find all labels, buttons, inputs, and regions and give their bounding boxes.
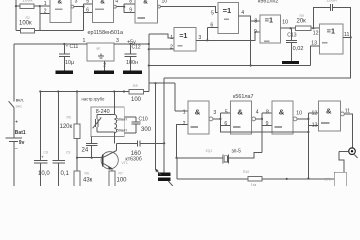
svg-text:R5: R5 — [67, 116, 71, 120]
ground under C11 — [56, 71, 74, 75]
coil unit box L1 — [91, 107, 124, 137]
svg-text:5: 5 — [225, 109, 228, 115]
xor gate DD2.2 =1 (pins 1,2 out 3) — [170, 28, 201, 52]
capacitor C13 0,02 — [286, 28, 303, 61]
svg-text:=1: =1 — [179, 31, 187, 40]
svg-text:&: & — [143, 0, 148, 5]
+5 rail y91.5 — [39, 90, 149, 92]
wire +5v output y44 — [114, 43, 150, 45]
xor gate DD2.3 =1 (pins 8,9 out 10) — [254, 15, 288, 43]
svg-text:вкл.: вкл. — [16, 98, 24, 103]
wire battery column bottom — [13, 141, 15, 186]
svg-text:120к: 120к — [60, 124, 73, 130]
svg-text:&: & — [237, 108, 243, 117]
wire bottom left to R10 — [177, 178, 248, 180]
wire N4 out 11 to jack — [344, 114, 352, 148]
capacitor C10 300 — [124, 117, 151, 134]
wire xorD pin13 to bus — [310, 46, 319, 66]
wire gate3 out 10 to xorA pin5 — [160, 7, 218, 13]
svg-text:11: 11 — [344, 32, 349, 38]
wire +5v vertical distribution — [148, 34, 150, 92]
svg-text:1: 1 — [83, 38, 86, 44]
wire frame drop to resonator — [163, 78, 165, 173]
svg-text:100к: 100к — [22, 0, 33, 4]
svg-text:зп-5: зп-5 — [232, 149, 242, 155]
svg-text:R10: R10 — [243, 170, 249, 174]
resistor R7 100 — [109, 171, 127, 187]
capacitor C5 160 — [117, 140, 166, 156]
svg-text:10: 10 — [296, 110, 302, 116]
wire xorA pin6 from node3 — [206, 28, 218, 42]
wire collector up — [116, 143, 118, 150]
svg-text:2: 2 — [183, 121, 186, 127]
wire base node — [76, 157, 102, 159]
svg-text:9: 9 — [254, 29, 257, 35]
svg-text:10: 10 — [282, 20, 288, 26]
svg-text:BF1: BF1 — [325, 178, 331, 182]
inductor L1 windings 50vit — [114, 115, 127, 133]
svg-text:−: − — [15, 146, 18, 152]
wire gate1 out to gate2 in — [74, 4, 93, 31]
svg-text:2: 2 — [170, 45, 173, 51]
svg-text:Bat1: Bat1 — [15, 130, 26, 136]
capacitor C7 24 — [82, 137, 98, 158]
resonator ZQ1 plates (thick bars) — [155, 169, 173, 187]
svg-text:&: & — [58, 0, 63, 5]
svg-text:4: 4 — [241, 10, 244, 16]
wire rail y132 — [220, 131, 308, 133]
svg-text:4: 4 — [256, 109, 259, 115]
svg-text:8: 8 — [254, 19, 257, 25]
svg-text:10: 10 — [162, 0, 168, 5]
resistor R2 100k — [16, 16, 84, 33]
svg-text:1: 1 — [44, 1, 47, 7]
svg-text:8: 8 — [266, 109, 269, 115]
switch SA1 вкл — [9, 98, 25, 109]
nand gate DD3.3 (pins 8,9 out 10) — [266, 101, 303, 134]
svg-text:&: & — [195, 108, 201, 117]
svg-text:+: + — [41, 155, 44, 160]
capacitor C8 10,0 — [34, 92, 50, 187]
wire to xorB pin1 — [149, 34, 174, 38]
svg-text:к561ла7: к561ла7 — [233, 94, 254, 100]
regulator U1 box — [83, 38, 120, 68]
bus wire y65.5 — [148, 64, 311, 66]
svg-text:8: 8 — [129, 0, 132, 5]
svg-text:C13: C13 — [287, 33, 296, 39]
svg-text:3: 3 — [213, 110, 216, 116]
svg-text:9: 9 — [129, 8, 132, 14]
wire xorD out11 — [343, 36, 352, 38]
svg-text:0,1: 0,1 — [61, 171, 70, 177]
svg-text:настр.грубо: настр.грубо — [82, 96, 105, 101]
wire rail to coil box — [113, 92, 115, 115]
svg-text:к561лп2: к561лп2 — [258, 0, 278, 5]
wire battery column top — [13, 44, 15, 102]
svg-text:C11: C11 — [70, 44, 79, 50]
nand gate DD3.1 (pins 1,2 out 3) — [183, 101, 217, 134]
node A junctions — [15, 5, 41, 7]
svg-text:=1: =1 — [223, 6, 232, 15]
svg-text:=1: =1 — [265, 16, 273, 25]
wire gate1 input column — [34, 6, 50, 31]
svg-text:100н: 100н — [126, 60, 138, 66]
svg-text:вп: вп — [97, 47, 101, 51]
svg-text:=1: =1 — [327, 26, 335, 35]
ground under C12 — [123, 71, 142, 75]
svg-text:20к: 20к — [297, 19, 307, 25]
svg-text:C9: C9 — [66, 151, 70, 155]
transistor VT1 кт630б — [101, 151, 142, 170]
wire +5 branch y83 — [149, 82, 175, 84]
wire N2 out to N3 inputs and crystal — [229, 113, 272, 158]
svg-text:6: 6 — [224, 121, 227, 127]
svg-text:2: 2 — [44, 9, 47, 15]
svg-text:R2: R2 — [26, 16, 30, 20]
frame wire y78 — [164, 37, 351, 78]
wire xorA out4 to xorC pin8 and bus — [239, 16, 261, 67]
wire +5 branch down to arrow — [155, 83, 157, 169]
trimmer capacitor C6 8-240 — [93, 115, 115, 132]
svg-text:12: 12 — [312, 110, 318, 116]
svg-text:ZQ1: ZQ1 — [206, 149, 213, 153]
wire xorC out10 to R 20k — [280, 27, 295, 29]
svg-text:12: 12 — [313, 30, 319, 36]
svg-text:160: 160 — [131, 151, 142, 157]
svg-text:300: 300 — [141, 127, 152, 133]
resistor R1 100k (top, cut) — [16, 0, 40, 8]
svg-text:10μ: 10μ — [65, 60, 74, 66]
svg-text:100н: 100н — [327, 0, 338, 3]
wire N1 pin2 from crystal node — [175, 125, 188, 159]
svg-text:100к: 100к — [19, 21, 32, 27]
svg-text:10,0: 10,0 — [38, 171, 50, 177]
wire R10 to earphone — [262, 177, 334, 180]
wire N1 out to N2 inputs — [213, 113, 231, 132]
wire to xorB pin2 — [149, 48, 174, 50]
nand gate DD3.4 (pins 12,13 out 11) — [312, 101, 351, 131]
svg-text:9v: 9v — [19, 140, 25, 146]
svg-text:24: 24 — [82, 148, 89, 154]
svg-text:+: + — [66, 44, 69, 49]
battery Bat1 9v — [6, 120, 26, 153]
ground regulator pin2 — [94, 61, 114, 74]
svg-text:100: 100 — [117, 178, 128, 184]
wire emitter down — [111, 169, 113, 171]
svg-text:0,02: 0,02 — [293, 46, 304, 52]
svg-text:C10: C10 — [139, 117, 148, 123]
earphone BF1 box (cut) — [325, 172, 347, 187]
svg-text:1: 1 — [183, 109, 186, 115]
wire N1 pin1 from +5 branch — [175, 83, 188, 111]
resistor R6 43k — [74, 158, 93, 187]
svg-text:13: 13 — [312, 122, 318, 128]
svg-text:&: & — [100, 0, 105, 5]
capacitor C12 100n — [125, 44, 141, 71]
svg-text:43к: 43к — [83, 178, 93, 184]
svg-text:3: 3 — [116, 38, 119, 44]
resistor R8 100 — [129, 84, 143, 103]
gate DD1.1 NAND (top cut) — [44, 0, 78, 23]
wire bottom node down from crystal junction — [176, 158, 178, 179]
svg-text:&: & — [279, 108, 285, 117]
svg-text:9: 9 — [266, 121, 269, 127]
wire coil box bottom to collector line — [113, 132, 115, 144]
svg-text:R9: R9 — [300, 14, 304, 18]
svg-text:5: 5 — [86, 0, 89, 5]
resistor R10 — [243, 170, 262, 188]
resistor R5 120k — [60, 92, 81, 158]
svg-text:ер1158ен501а: ер1158ен501а — [88, 30, 124, 36]
svg-text:SA1: SA1 — [16, 105, 23, 109]
svg-text:100: 100 — [131, 97, 142, 103]
crystal node junction and crystal wire — [177, 157, 223, 159]
wire battery column mid — [13, 108, 15, 139]
svg-text:6: 6 — [86, 8, 89, 14]
svg-text:кт630б: кт630б — [125, 157, 141, 163]
wire left feedback column — [15, 0, 17, 31]
xor gate DD2.4 =1 (pins 12,13 out 11) — [311, 24, 349, 54]
svg-text:3: 3 — [75, 0, 78, 5]
resistor R9 20k — [296, 14, 320, 30]
svg-text:R6: R6 — [85, 172, 89, 176]
jack XS1 — [339, 148, 358, 158]
xor gate DD2.1 =1 (pins 5,6 out 4) — [210, 3, 244, 34]
gate DD1.2 NAND — [86, 0, 118, 23]
wire xorB out3 to xorC pin9 — [196, 32, 260, 40]
wire N3 out to N4 inputs and down — [297, 113, 318, 179]
nand gate DD3.2 (pins 5,6 out 4) — [224, 101, 258, 134]
svg-text:+: + — [15, 120, 18, 126]
wire gate2 out to gate3 in — [116, 4, 135, 13]
svg-text:4: 4 — [115, 0, 118, 5]
svg-text:C8: C8 — [43, 151, 47, 155]
ground under C13 — [282, 61, 299, 64]
capacitor C11 10u — [59, 44, 79, 71]
svg-text:C12: C12 — [132, 44, 141, 50]
svg-text:R7: R7 — [119, 172, 123, 176]
svg-text:&: & — [326, 107, 332, 116]
wire jack to earphone — [339, 152, 344, 173]
piezo resonator ZQ1 зп-5 — [206, 149, 242, 164]
capacitor C14 feedback (top, cut label) — [313, 0, 350, 37]
svg-text:5: 5 — [211, 10, 214, 16]
gate DD1.3 NAND — [129, 0, 167, 23]
wire vcc input y44 — [14, 43, 87, 45]
svg-text:50вит: 50вит — [117, 127, 128, 132]
svg-text:1м: 1м — [251, 183, 257, 187]
capacitor C9 0,1 — [53, 92, 71, 187]
